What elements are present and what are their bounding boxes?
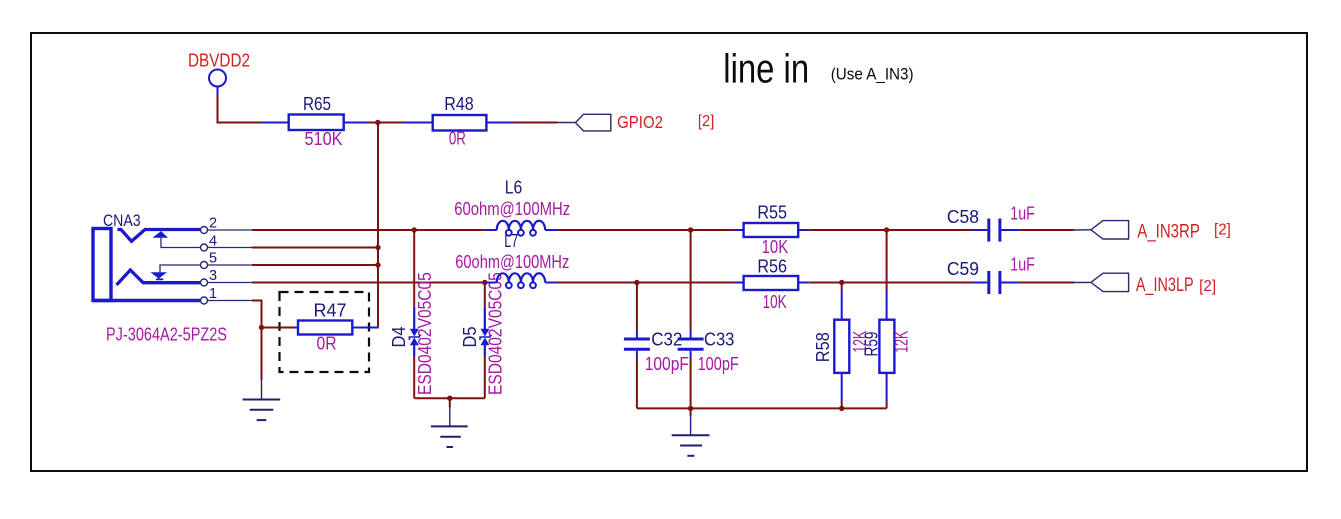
svg-text:C59: C59 — [947, 259, 979, 279]
svg-text:1uF: 1uF — [1010, 204, 1035, 224]
svg-text:CNA3: CNA3 — [103, 212, 141, 230]
svg-text:12K: 12K — [892, 331, 912, 353]
resistor R65 — [261, 115, 368, 131]
vertical rail from R65/R48 junction to R47 — [377, 123, 379, 328]
power symbol DBVDD2 — [209, 70, 226, 96]
resistor R48 — [403, 115, 513, 131]
pin 5 lead — [208, 264, 253, 266]
wire pin1 down to R47 node and ground — [252, 301, 262, 381]
port A_IN3RP — [1091, 221, 1129, 239]
junction pin2/D4 — [412, 227, 417, 232]
svg-text:C33: C33 — [704, 329, 734, 349]
svg-text:100pF: 100pF — [698, 354, 739, 374]
TVS diode D4 — [409, 230, 419, 398]
svg-text:5: 5 — [209, 251, 217, 267]
svg-text:DBVDD2: DBVDD2 — [188, 50, 250, 70]
svg-text:ESD0402V05C05: ESD0402V05C05 — [486, 272, 506, 395]
svg-text:R48: R48 — [444, 94, 474, 114]
connector CNA3 jack body — [93, 229, 201, 301]
svg-text:L7: L7 — [504, 231, 518, 251]
pin 4 circle — [201, 244, 208, 251]
junction pin3/D5 — [482, 280, 487, 285]
wire R56 to C59 — [809, 282, 972, 284]
svg-text:3: 3 — [209, 268, 217, 284]
jack ring contact (pin3) — [117, 270, 201, 285]
wire pin5 to rail — [252, 264, 378, 266]
wire R48 to GPIO2 port — [513, 122, 557, 124]
wire C59 to port — [1019, 282, 1074, 284]
svg-text:10K: 10K — [762, 237, 789, 257]
capacitor C58 — [972, 219, 1019, 242]
wire DBVDD2 to R65 — [218, 95, 262, 123]
inductor L7 — [485, 273, 557, 288]
svg-text:R55: R55 — [757, 203, 787, 223]
svg-text:[2]: [2] — [1214, 222, 1231, 239]
resistor R47 — [294, 321, 379, 335]
capacitor C59 — [972, 271, 1019, 294]
svg-text:PJ-3064A2-5PZ2S: PJ-3064A2-5PZ2S — [106, 325, 227, 345]
svg-text:[2]: [2] — [698, 113, 714, 130]
junction R59 top — [884, 227, 889, 232]
wire R65 to R48 — [368, 122, 403, 124]
inductor L6 — [485, 221, 557, 236]
svg-text:100pF: 100pF — [645, 354, 689, 374]
svg-text:C58: C58 — [947, 207, 979, 227]
svg-text:R47: R47 — [314, 301, 347, 321]
wire L7 to R56 — [557, 282, 734, 284]
svg-text:R56: R56 — [757, 257, 787, 277]
svg-text:10K: 10K — [763, 292, 787, 312]
svg-text:2: 2 — [209, 216, 217, 232]
tip switch arrow (up) — [153, 231, 201, 247]
svg-text:R58: R58 — [813, 332, 833, 362]
svg-text:GPIO2: GPIO2 — [617, 112, 663, 132]
svg-text:ESD0402V05C05: ESD0402V05C05 — [415, 272, 435, 395]
svg-text:R65: R65 — [303, 94, 331, 114]
TVS diode D5 — [480, 283, 490, 399]
junction D4/D5 ground — [447, 396, 452, 401]
wire pin4 to rail — [252, 247, 378, 249]
port A_IN3LP — [1091, 273, 1129, 291]
wire R55 net down to R59 — [886, 230, 888, 291]
ground under D4/D5 — [431, 398, 468, 447]
junction rail/pin4 — [375, 245, 380, 250]
svg-text:60ohm@100MHz: 60ohm@100MHz — [455, 252, 569, 272]
ground under C33 — [672, 408, 710, 455]
capacitor C32 — [624, 283, 650, 409]
junction R58/ground — [839, 406, 844, 411]
pin 3 circle — [201, 279, 208, 286]
ring switch arrow (down) — [151, 265, 201, 279]
wire L6 to R55 — [557, 229, 734, 231]
svg-text:A_IN3LP: A_IN3LP — [1136, 275, 1194, 296]
junction C32 top — [634, 280, 639, 285]
dashed DNP box around R47 — [280, 292, 370, 372]
junction at R65/R48/rail — [375, 120, 380, 125]
pin 4 lead — [208, 247, 253, 249]
junction C33/ground — [688, 406, 693, 411]
pin 5 circle — [201, 262, 208, 269]
capacitor C33 — [678, 230, 704, 408]
junction C33 top — [688, 227, 693, 232]
wire D4-D5 ground bus — [414, 397, 485, 399]
pin 2 lead — [208, 229, 253, 231]
bottom ground bus — [637, 407, 887, 409]
svg-text:D5: D5 — [460, 327, 480, 348]
svg-text:1: 1 — [209, 286, 217, 302]
svg-text:0R: 0R — [317, 334, 337, 354]
wire R47 left — [262, 327, 295, 329]
svg-text:1uF: 1uF — [1010, 254, 1035, 274]
junction R58 top — [839, 280, 844, 285]
resistor R55 — [734, 223, 809, 237]
pin 3 lead — [208, 282, 253, 284]
wire R55 to C58 — [809, 229, 972, 231]
svg-text:L6: L6 — [505, 178, 523, 198]
svg-text:D4: D4 — [389, 327, 409, 348]
pin 1 circle — [201, 297, 208, 304]
svg-text:R59: R59 — [862, 332, 882, 357]
jack tip contact (pin2) — [118, 230, 201, 242]
resistor R58 (vertical) — [834, 283, 849, 409]
svg-text:line in: line in — [723, 46, 809, 92]
wire pin3 to L7 — [252, 282, 485, 284]
svg-text:A_IN3RP: A_IN3RP — [1137, 222, 1200, 243]
port GPIO2 — [576, 114, 611, 131]
wire pin2 to L6 — [252, 229, 485, 231]
svg-text:[2]: [2] — [1199, 278, 1216, 295]
junction pin1/R47 — [259, 325, 264, 330]
svg-text:0R: 0R — [449, 129, 466, 149]
junction rail/pin5 — [375, 262, 380, 267]
svg-text:(Use A_IN3): (Use A_IN3) — [831, 65, 914, 84]
resistor R56 — [734, 276, 809, 290]
pin 2 circle — [201, 227, 208, 234]
resistor R59 (vertical) — [879, 291, 894, 408]
svg-text:510K: 510K — [305, 129, 343, 149]
wire C58 to port — [1019, 229, 1074, 231]
svg-text:60ohm@100MHz: 60ohm@100MHz — [454, 199, 570, 219]
ground under jack — [243, 380, 281, 420]
pin 1 lead — [208, 300, 253, 302]
